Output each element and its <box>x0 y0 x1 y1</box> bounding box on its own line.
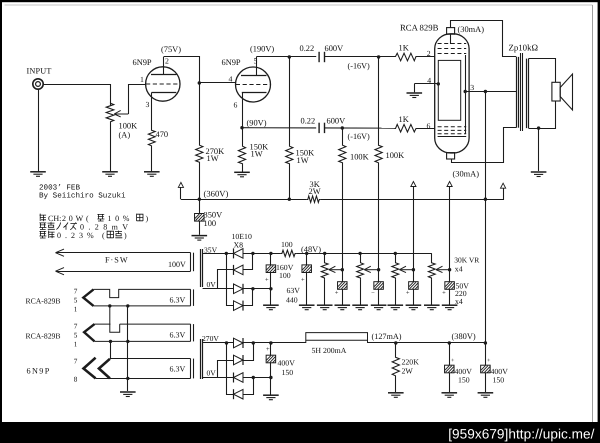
dropper R10 3K <box>307 196 321 202</box>
svg-text:+: + <box>335 290 339 297</box>
node speaker ground <box>537 126 540 129</box>
svg-text:(: ( <box>102 231 105 240</box>
svg-text:100K: 100K <box>119 122 138 131</box>
wire row3 to row4 link <box>110 341 112 358</box>
wire pot2 top <box>360 253 362 261</box>
node screen feed <box>484 90 487 93</box>
wire pot3 top <box>395 253 397 261</box>
svg-text:3: 3 <box>146 100 150 109</box>
bias pot VR2 30K <box>357 262 364 280</box>
wire V2 plate line <box>256 56 316 58</box>
svg-text:100K: 100K <box>350 153 369 162</box>
OPT primary winding bars <box>516 57 518 128</box>
svg-text:): ) <box>146 214 149 223</box>
wire D1 out <box>243 253 281 255</box>
wire pot wiper to 6N9P grid <box>129 85 147 115</box>
node b2 d7r <box>252 376 255 379</box>
plate load R9 270K <box>196 144 203 164</box>
wire choke out <box>368 342 486 344</box>
wire rail arrow to plate supply <box>485 188 503 200</box>
bias cap C7 50V 220 <box>378 270 380 282</box>
V1 grid dashed line <box>146 83 180 85</box>
plate load R4 150K <box>286 145 293 165</box>
svg-text:0.22: 0.22 <box>301 116 316 125</box>
diode D5 <box>234 338 244 348</box>
diode D7 <box>234 373 244 383</box>
tube V1 6N9P envelope <box>146 67 180 101</box>
svg-text:(30mA): (30mA) <box>458 25 485 34</box>
svg-text:4: 4 <box>427 76 431 85</box>
svg-text:INPUT: INPUT <box>27 67 52 76</box>
svg-text:3: 3 <box>470 83 474 92</box>
ground (C6) <box>335 305 351 310</box>
svg-text:6: 6 <box>234 101 238 110</box>
svg-text:1K: 1K <box>399 44 409 53</box>
ground (220K) <box>388 393 404 398</box>
svg-text:0V: 0V <box>207 369 217 378</box>
svg-text:100: 100 <box>281 240 293 249</box>
svg-text:7: 7 <box>74 322 78 330</box>
tube V3 829B envelope <box>435 34 469 153</box>
note line3 kanji b <box>48 231 55 239</box>
svg-text:6N9P: 6N9P <box>222 58 241 67</box>
pin 3 wire <box>465 91 516 93</box>
diode D8 <box>234 389 244 399</box>
node wiper2 <box>377 268 380 271</box>
note line2 katakana no <box>56 223 60 230</box>
svg-text:Zp10kΩ: Zp10kΩ <box>509 43 539 53</box>
ground (heater CT) <box>120 392 136 397</box>
pot VR4 wiper <box>436 266 450 272</box>
svg-text:7: 7 <box>74 287 78 295</box>
svg-text:1W: 1W <box>251 150 263 159</box>
wire pot1 bottom <box>324 279 326 304</box>
scan frame border top (light) <box>5 4 593 6</box>
svg-text:(-16V): (-16V) <box>348 132 371 141</box>
bias pot VR1 30K <box>321 262 328 280</box>
ground (input jack) <box>30 172 46 177</box>
ground (pot3) <box>388 305 404 310</box>
wire 270K to rail <box>199 164 201 200</box>
V1 plate bar <box>151 74 177 76</box>
ground (volume pot) <box>102 172 118 177</box>
node row2 tap b <box>126 304 129 307</box>
wire R8 top <box>378 57 380 144</box>
wire D5 out <box>243 342 306 344</box>
wire 90V line <box>242 127 316 129</box>
note line2 katakana i <box>63 223 68 230</box>
wire pot1 top <box>324 253 326 261</box>
wire D8 left <box>227 343 234 395</box>
svg-text:0V: 0V <box>207 280 217 289</box>
wire rail to screen node <box>320 199 485 201</box>
svg-text:x4: x4 <box>455 297 463 306</box>
wire D7 out <box>243 377 271 379</box>
svg-text:(380V): (380V) <box>452 332 476 341</box>
svg-text:8: 8 <box>74 375 78 383</box>
pin 3 node <box>464 90 467 93</box>
wire R3 top <box>242 128 244 145</box>
node plate/150K <box>288 55 291 58</box>
svg-text:100: 100 <box>204 219 217 228</box>
node rail/pot3 <box>394 252 397 255</box>
ground (pot2) <box>352 305 368 310</box>
svg-text:(30mA): (30mA) <box>453 170 480 179</box>
svg-text:(-16V): (-16V) <box>348 62 371 71</box>
node -16V bottom <box>341 126 344 129</box>
ground (C3) <box>192 236 208 241</box>
wire secondary top <box>529 59 556 83</box>
svg-text:600V: 600V <box>325 44 344 53</box>
note line3 kanji a <box>39 231 46 238</box>
ground (pot1) <box>317 305 333 310</box>
arrow up (bias feed 2) <box>447 182 452 187</box>
svg-text:5H 200mA: 5H 200mA <box>312 346 347 355</box>
wire D2 right <box>243 253 253 269</box>
node b1 d3r <box>251 287 254 290</box>
bias cap C6 50V 220 <box>342 270 344 282</box>
V1 cathode lead <box>151 93 153 130</box>
row2 winding box <box>94 289 191 306</box>
tube V2 6N9P envelope <box>236 67 271 102</box>
node b2 in <box>225 341 228 344</box>
svg-text:−: − <box>371 290 375 297</box>
wire D6 right <box>243 343 254 361</box>
svg-text:600V: 600V <box>327 116 346 125</box>
filter cap C10 400V 150 <box>270 343 272 355</box>
svg-text:By Seiichiro Suzuki: By Seiichiro Suzuki <box>39 192 126 201</box>
node b1 capneg <box>269 287 272 290</box>
row4 winding box <box>110 358 191 360</box>
cathode resistor R2 470 <box>148 129 155 147</box>
note line3 kanji d <box>115 231 122 238</box>
V3 bottom grid dashes <box>438 127 467 134</box>
black border right <box>598 0 600 443</box>
wire pot4 bottom <box>431 279 433 304</box>
svg-text:150: 150 <box>493 376 505 385</box>
ground (470) <box>144 172 160 177</box>
svg-text:150: 150 <box>458 376 470 385</box>
svg-text:): ) <box>124 231 127 240</box>
row2 chevron <box>83 289 93 306</box>
bias cap C9 50V 220 <box>449 270 451 282</box>
svg-text:(127mA): (127mA) <box>372 332 402 341</box>
pot VR3 wiper <box>400 266 414 272</box>
wire V1 plate to node <box>164 57 200 84</box>
filter cap C12 400V 150 <box>485 343 487 365</box>
wire C1 to 1K <box>325 56 396 58</box>
svg-text:6N9P: 6N9P <box>133 58 152 67</box>
360V rail <box>181 199 307 201</box>
bias cap C4 160V 100 <box>270 253 272 265</box>
ground (C11) <box>442 393 458 398</box>
filter cap C3 350V 100 <box>199 199 201 213</box>
filter cap C11 400V 150 <box>449 343 451 365</box>
node row2 tap a <box>108 304 111 307</box>
wire D8 right <box>243 378 254 395</box>
svg-text:1K: 1K <box>399 115 409 124</box>
node b1 in <box>225 252 228 255</box>
svg-text:5: 5 <box>74 331 78 339</box>
V1 cathode bar <box>152 92 177 94</box>
wire node down to 270K <box>199 83 201 144</box>
wire bottom cap to OPT <box>452 128 517 163</box>
svg-text:+: + <box>266 346 270 353</box>
OPT core bars <box>520 53 522 131</box>
V1 plate lead <box>163 57 165 75</box>
node row3 tap b <box>126 340 129 343</box>
svg-text:2003’ FEB: 2003’ FEB <box>39 184 80 193</box>
grid leak R7 100K <box>339 144 346 164</box>
wire jack to volume pot <box>43 85 110 107</box>
note line1 kanji b <box>97 214 104 221</box>
svg-text:270V: 270V <box>202 334 219 343</box>
svg-text:(190V): (190V) <box>250 45 274 54</box>
svg-text:2W: 2W <box>402 367 414 376</box>
wire 150K tap down <box>289 57 291 145</box>
row1 right bars <box>190 253 192 272</box>
cathode resistor R3 150K <box>238 145 245 165</box>
wire D3 out <box>243 288 271 290</box>
wire 220K bottom <box>395 377 397 392</box>
choke CH1 5H 200mA <box>306 333 368 343</box>
svg-text:2: 2 <box>427 49 431 58</box>
node rail/270K/cap <box>198 198 201 201</box>
row3 chevron <box>84 324 94 341</box>
svg-text:1W: 1W <box>207 154 219 163</box>
wire 150K to rail <box>289 165 291 199</box>
node row3 tap a <box>109 340 112 343</box>
node rail/screen <box>484 198 487 201</box>
diode D1 <box>234 248 244 258</box>
wire D2 left <box>218 270 234 289</box>
node rail/pot1 <box>323 252 326 255</box>
V2 grid dashed line <box>236 84 270 86</box>
mains winding box <box>57 252 191 254</box>
V2 cathode bar <box>242 92 267 94</box>
ground (pot4) <box>424 305 440 310</box>
grid leak R8 100K <box>375 144 382 164</box>
ground (pin 4) <box>407 93 423 98</box>
note line3 kanji c <box>107 231 113 238</box>
node rail/150K <box>288 198 291 201</box>
row4 chevron 1 <box>84 358 96 379</box>
svg-text:F·SW: F·SW <box>105 255 129 264</box>
resistor R11 100 <box>281 250 296 256</box>
speaker <box>552 82 560 101</box>
wire D4 right <box>243 289 253 306</box>
svg-text:6.3V: 6.3V <box>170 295 186 304</box>
diode D6 <box>234 355 244 365</box>
node b1 cap <box>269 252 272 255</box>
ground (C8) <box>406 305 422 310</box>
node wiper1 <box>341 268 344 271</box>
svg-text:4: 4 <box>229 75 233 84</box>
svg-text:30K VR: 30K VR <box>454 255 479 264</box>
heater ground collector <box>127 306 129 391</box>
node cathode 90V <box>240 126 243 129</box>
svg-text:+: + <box>442 290 446 297</box>
pin 4 wire <box>414 83 438 85</box>
black border top <box>0 0 600 2</box>
svg-text:+: + <box>406 290 410 297</box>
svg-text:7: 7 <box>74 357 78 365</box>
volume pot R1 100K(A) <box>106 102 114 123</box>
wire D6 left <box>218 361 234 378</box>
OPT secondary winding bars <box>526 59 528 129</box>
bias pot VR4 30K <box>428 262 435 280</box>
grid stopper R5 1K (top) <box>395 53 418 61</box>
ground (C5) <box>299 305 315 310</box>
node 220K <box>394 341 397 344</box>
48V rail <box>296 253 432 255</box>
wire pot bottom <box>110 123 112 171</box>
ground (C10) <box>263 395 279 400</box>
node wiper3 <box>412 268 415 271</box>
svg-text:RCA 829B: RCA 829B <box>400 23 439 33</box>
wire 0V line b2 <box>203 377 234 379</box>
svg-text:0.23%: 0.23% <box>57 231 98 240</box>
bias pot VR3 30K <box>392 262 399 280</box>
node C11 <box>448 341 451 344</box>
diode D4 <box>234 301 244 311</box>
arrow up (bias feed 1) <box>411 182 416 187</box>
row2 right bars <box>190 289 192 306</box>
ground (speaker) <box>531 172 547 177</box>
svg-text:(75V): (75V) <box>161 45 181 54</box>
270V winding bars <box>200 339 202 379</box>
node b2 d5r <box>252 341 255 344</box>
svg-text:1: 1 <box>74 305 78 313</box>
grid stopper R6 1K (bottom) <box>395 124 418 132</box>
wire R3 to ground <box>242 165 244 172</box>
wire jack ground stem <box>38 89 40 171</box>
wire to V2 grid <box>199 82 235 84</box>
pot VR2 wiper <box>364 266 378 272</box>
diode D2 <box>234 265 244 275</box>
wire D4 left <box>227 253 234 305</box>
node -16V top <box>377 55 380 58</box>
black border left <box>0 0 2 443</box>
node b1 d1r <box>251 252 254 255</box>
wire 35V tap <box>203 253 234 255</box>
wire speaker ground stem <box>538 128 540 171</box>
wire 1K to pin6 <box>417 128 435 130</box>
wire screen feed down <box>485 92 487 344</box>
node wiper4 <box>448 268 451 271</box>
node rail/pot2 <box>358 252 361 255</box>
pot R1 wiper arrow <box>114 110 128 117</box>
bleeder R12 220K <box>392 356 399 377</box>
pin 4 node <box>437 82 440 85</box>
mains arrows <box>56 249 65 256</box>
note line2 kanji b <box>48 222 55 229</box>
V2 plate lead <box>256 57 258 76</box>
svg-text:440: 440 <box>286 296 298 305</box>
svg-text:6: 6 <box>427 122 431 131</box>
node row4 tap <box>126 377 129 380</box>
wire R8 down to pot2 wiper <box>378 164 380 270</box>
svg-text:X8: X8 <box>234 241 244 250</box>
svg-text:6N9P: 6N9P <box>27 366 51 375</box>
wire R7 down to pot1 wiper <box>342 164 344 270</box>
svg-text:+: + <box>265 277 269 284</box>
wire 220K top <box>395 343 397 356</box>
node C5 <box>305 252 308 255</box>
wire 470 to ground <box>151 147 153 171</box>
wire secondary bottom <box>529 101 556 129</box>
wire pot3 bottom <box>395 279 397 304</box>
svg-text:1: 1 <box>140 75 144 84</box>
svg-text:(360V): (360V) <box>204 189 229 199</box>
svg-text:5: 5 <box>254 57 258 66</box>
wire pot4 top <box>431 253 433 261</box>
wire C2 to 1K <box>325 127 396 129</box>
row3 winding box <box>95 324 191 341</box>
node b2 cap <box>269 341 272 344</box>
35V winding bars <box>200 249 202 287</box>
svg-text:150: 150 <box>282 368 294 377</box>
svg-text:35V: 35V <box>204 245 218 254</box>
note line2 katakana zu <box>70 223 77 230</box>
note line2 kanji a <box>39 223 46 230</box>
coupling cap C1 0.22 600V (top) <box>319 52 324 62</box>
row4 right bars <box>190 359 192 379</box>
note line1 kanji c <box>137 214 143 221</box>
V2 plate bar <box>241 75 267 77</box>
svg-text:+: + <box>301 277 305 284</box>
svg-text:6.3V: 6.3V <box>170 364 186 373</box>
svg-text:RCA-829B: RCA-829B <box>26 296 61 305</box>
ground (C4) <box>263 305 279 310</box>
pot VR1 wiper <box>329 266 342 272</box>
svg-text:100: 100 <box>279 271 291 280</box>
note line1 kanji a <box>40 214 47 222</box>
svg-text:0.22: 0.22 <box>300 44 315 53</box>
wire pot2 bottom <box>360 279 362 304</box>
svg-text:[959x679]http://upic.me/: [959x679]http://upic.me/ <box>448 427 594 442</box>
svg-text:RCA-829B: RCA-829B <box>26 331 61 340</box>
svg-text:(A): (A) <box>119 131 131 140</box>
svg-text:(48V): (48V) <box>301 245 321 254</box>
svg-text:100V: 100V <box>168 260 186 269</box>
V3 top grid dashes <box>438 44 467 54</box>
node b2 capneg <box>269 376 272 379</box>
row3 right bars <box>190 324 192 341</box>
svg-text:220K: 220K <box>402 358 420 367</box>
wire top cap to OPT <box>451 21 517 57</box>
svg-text:x4: x4 <box>455 264 463 273</box>
V3 inner box <box>438 60 460 120</box>
V3 right electrode line <box>465 55 467 134</box>
bias cap C8 50V 220 <box>413 270 415 282</box>
coupling cap C2 0.22 600V (bottom) <box>319 123 324 133</box>
svg-text:1: 1 <box>74 340 78 348</box>
node V1 plate / V2 grid <box>198 81 201 84</box>
svg-text:CH:: CH: <box>48 214 61 223</box>
svg-text:6.3V: 6.3V <box>170 330 186 339</box>
scan frame border right (light) <box>592 5 594 422</box>
wire row2 to row3 link <box>110 306 120 332</box>
black bottom bar <box>0 422 600 443</box>
svg-text:1W: 1W <box>297 156 309 165</box>
svg-text:100K: 100K <box>386 151 405 160</box>
ground (C9) <box>442 305 458 310</box>
V2 cathode lead <box>242 93 244 128</box>
input jack J1 <box>33 79 43 89</box>
wire 270V tap <box>203 342 234 344</box>
svg-text:400V: 400V <box>278 359 296 368</box>
